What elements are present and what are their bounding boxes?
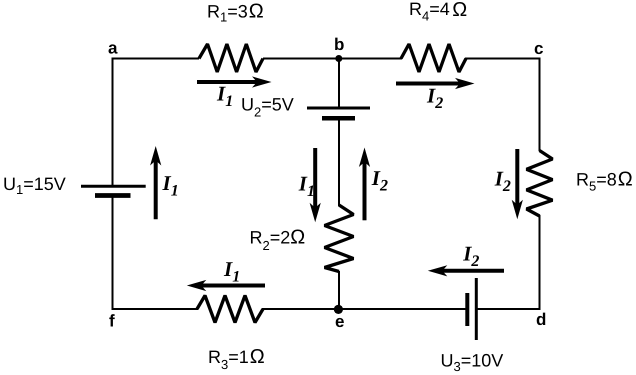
resistor R1 (199, 44, 263, 72)
svg-text:d: d (536, 310, 546, 329)
wire U2 to R2 (338, 118, 340, 206)
node dot e (334, 305, 343, 314)
current arrow I1 up beside U1 (154, 156, 158, 219)
wire R2 to e (338, 271, 340, 310)
svg-text:a: a (108, 39, 118, 58)
current arrow I2 up middle branch (363, 158, 367, 221)
wire R3 to e (262, 308, 339, 310)
current arrow I2 left above U3 (439, 269, 504, 273)
resistor R5 (527, 151, 553, 217)
wire c down to R5 (539, 58, 541, 152)
resistor R3 (197, 296, 263, 323)
battery U2 (307, 107, 370, 110)
svg-text:R1=3Ω: R1=3Ω (207, 0, 264, 24)
svg-text:U1=15V: U1=15V (3, 174, 66, 197)
resistor R2 (325, 205, 354, 272)
current arrow I2 down beside R5 (515, 149, 519, 209)
wire U1 to f (112, 196, 114, 311)
current arrow I1 left above R3 (198, 284, 265, 288)
current arrow I2 right under R4 (396, 82, 464, 86)
wire a down to U1 (112, 58, 114, 187)
svg-text:c: c (534, 39, 543, 58)
svg-text:b: b (334, 35, 344, 54)
wire b down to U2 (338, 59, 340, 109)
wire e to U3 (339, 308, 468, 310)
wire R5 to d (539, 215, 541, 310)
wire R1 to b (263, 58, 339, 60)
svg-text:e: e (335, 312, 344, 331)
wire U3 to d (476, 308, 541, 310)
node dot b (335, 55, 342, 62)
resistor R4 (401, 44, 466, 72)
current arrow I1 right under R1 (197, 80, 261, 84)
battery U3 (465, 293, 469, 326)
svg-text:f: f (109, 312, 115, 331)
svg-text:U3=10V: U3=10V (441, 350, 504, 374)
wire a to R1 (112, 58, 200, 60)
wire b to R4 (339, 58, 402, 60)
battery U1 (81, 185, 146, 188)
wire f to R3 (112, 308, 199, 310)
current arrow I1 down middle branch (313, 148, 317, 212)
wire R4 to c (465, 58, 541, 60)
